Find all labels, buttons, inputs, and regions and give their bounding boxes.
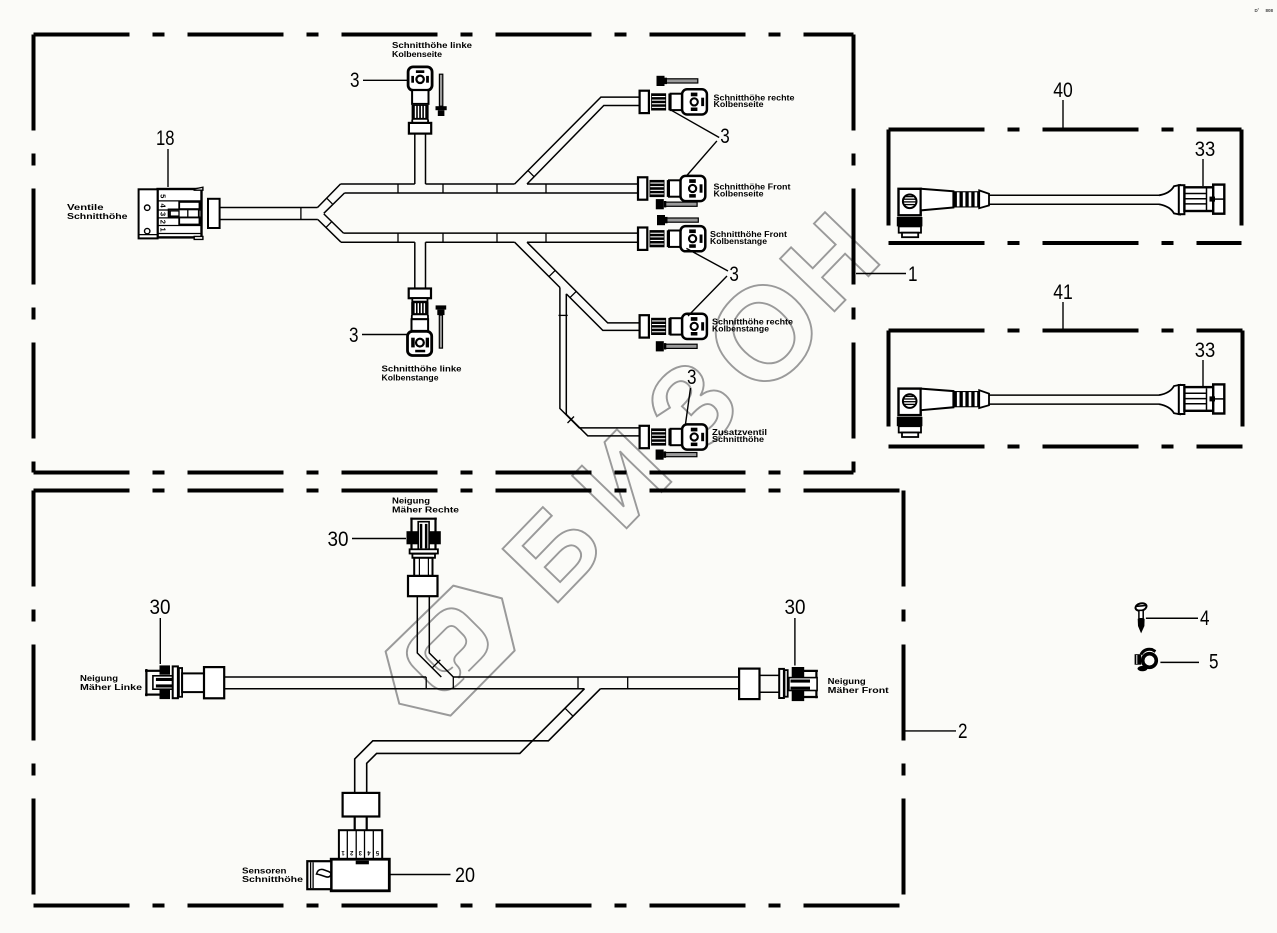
label 3 leader (upper) xyxy=(363,79,407,81)
svg-text:2: 2 xyxy=(159,220,168,224)
sensor connector 30 (Neigung Maeher Linke) xyxy=(145,665,224,699)
svg-text:3: 3 xyxy=(350,69,360,92)
svg-text:Ventile: Ventile xyxy=(67,203,104,212)
box 40 border xyxy=(889,128,1242,132)
screw (below Zusatzventil) xyxy=(664,453,697,457)
cable assembly 40: angled M12 connector xyxy=(897,185,1225,238)
label 3 leader (lower) xyxy=(362,334,407,336)
svg-text:3: 3 xyxy=(687,366,697,389)
connector 33 (41) xyxy=(1159,385,1180,415)
label 2 leader xyxy=(905,730,956,732)
ticks on lower diagonal xyxy=(549,270,555,276)
svg-text:Kolbenstange: Kolbenstange xyxy=(382,373,440,382)
svg-text:30: 30 xyxy=(785,596,806,619)
label 30 leader (right) xyxy=(794,618,796,666)
label 40 leader xyxy=(1062,100,1064,129)
wires to sensor header xyxy=(354,817,356,831)
svg-text:20: 20 xyxy=(455,864,475,887)
svg-text:Mäher Front: Mäher Front xyxy=(828,686,889,695)
svg-text:3: 3 xyxy=(349,324,359,347)
branch down to valve connector xyxy=(414,242,416,288)
svg-text:808: 808 xyxy=(1266,8,1274,13)
valve connector (Schnitthoehe Front Kolbenstange) xyxy=(638,228,647,250)
branch to sensors xyxy=(355,689,601,793)
svg-text:41: 41 xyxy=(1053,281,1073,304)
connector 18 (Ventile Schnitthoehe plug) xyxy=(139,187,203,239)
sensor branch ferrule xyxy=(343,793,380,817)
diagonal branch to rechte Kolbenstange xyxy=(515,242,560,287)
svg-text:Kolbenseite: Kolbenseite xyxy=(714,100,765,109)
svg-text:Kolbenseite: Kolbenseite xyxy=(392,50,443,59)
screw item 4 xyxy=(1135,602,1148,633)
clamp item 5 xyxy=(1135,649,1157,671)
cable from top connector to trunk xyxy=(417,596,441,677)
svg-text:Neigung: Neigung xyxy=(80,674,118,683)
svg-text:D˚: D˚ xyxy=(1255,7,1260,13)
svg-text:Kolbenstange: Kolbenstange xyxy=(712,324,770,333)
box 41 border xyxy=(889,329,1243,333)
svg-text:Sensoren: Sensoren xyxy=(242,866,287,875)
watermark logo motif xyxy=(399,601,497,699)
label 3 leader (zusatz) xyxy=(686,388,691,424)
label 18 leader xyxy=(167,149,169,187)
watermark logo hexagon xyxy=(386,586,515,716)
svg-text:Kolbenstange: Kolbenstange xyxy=(710,237,768,246)
svg-text:Neigung: Neigung xyxy=(828,677,866,686)
upper trunk ticks xyxy=(397,184,399,193)
label 20 leader xyxy=(389,874,450,876)
lower trunk ticks xyxy=(397,233,399,242)
box 2 border (bottom harness) xyxy=(34,489,904,493)
svg-text:4: 4 xyxy=(1200,607,1210,630)
upper trunk cable xyxy=(341,183,415,185)
screw (above rechte Kolbenseite) xyxy=(665,79,698,83)
Y split xyxy=(318,184,341,208)
label 4 leader xyxy=(1146,617,1198,619)
lower trunk cable xyxy=(344,232,639,234)
label 3 leaders (kolbenseite pair) xyxy=(669,109,719,137)
label 33 leader (box 40) xyxy=(1202,159,1204,186)
svg-text:Schnitthöhe: Schnitthöhe xyxy=(712,435,765,444)
valve connector (Schnitthoehe Front Kolbenseite) xyxy=(638,177,647,199)
svg-text:18: 18 xyxy=(156,127,175,150)
label 5 leader xyxy=(1160,661,1199,663)
svg-text:33: 33 xyxy=(1195,339,1216,362)
svg-text:33: 33 xyxy=(1195,138,1216,161)
screw (below rechte Kolbenstange) xyxy=(665,344,698,348)
svg-text:5: 5 xyxy=(1209,651,1219,674)
svg-text:Schnitthöhe: Schnitthöhe xyxy=(242,875,304,884)
branch up to valve connector xyxy=(414,134,416,184)
label 30 leader (top) xyxy=(352,538,406,540)
bottom trunk cable xyxy=(224,676,426,678)
diagonal branch to rechte Kolbenseite xyxy=(515,97,640,184)
svg-text:5: 5 xyxy=(159,194,168,198)
feed cable xyxy=(220,207,318,209)
sensor connector 30 (Neigung Maeher Rechte) xyxy=(407,518,441,597)
sensor block 20 (Sensoren Schnitthoehe) xyxy=(307,830,389,891)
label 30 leader (left) xyxy=(159,618,161,664)
sensor connector 30 (Neigung Maeher Front) xyxy=(739,667,818,701)
valve connector (Zusatzventil Schnitthoehe) xyxy=(640,426,649,448)
grommet at connector 18 xyxy=(208,199,220,228)
tick on bend xyxy=(432,660,441,669)
label 3 leaders (kolbenstange pair) xyxy=(686,248,728,271)
screw for upper valve connector xyxy=(439,74,442,106)
valve connector 3 lower (Schnitthoehe linke Kolbenstange) xyxy=(409,289,431,299)
cable wire xyxy=(989,394,1160,396)
branch to Zusatzventil xyxy=(560,288,640,428)
svg-text:Mäher Linke: Mäher Linke xyxy=(80,683,143,692)
feed cable tick xyxy=(300,208,302,220)
svg-text:Schnitthöhe linke: Schnitthöhe linke xyxy=(382,365,463,374)
label 41 leader xyxy=(1062,302,1064,330)
svg-text:3: 3 xyxy=(729,263,739,286)
screw (above Front Kolbenstange) xyxy=(666,218,699,222)
svg-text:Kolbenseite: Kolbenseite xyxy=(714,190,765,199)
valve connector (Schnitthoehe rechte Kolbenseite) xyxy=(640,91,649,113)
ticks on zusatz branch xyxy=(559,314,568,316)
trunk ticks xyxy=(425,677,427,689)
svg-text:30: 30 xyxy=(328,528,349,551)
svg-text:1: 1 xyxy=(159,228,168,232)
svg-text:Mäher Rechte: Mäher Rechte xyxy=(392,505,460,514)
valve connector (Schnitthoehe rechte Kolbenstange) xyxy=(640,315,649,337)
box 1 border (top harness) xyxy=(34,33,854,37)
label 1 leader xyxy=(856,273,906,275)
svg-text:1: 1 xyxy=(908,263,918,286)
cable wire xyxy=(989,194,1160,196)
label 33 leader (box 41) xyxy=(1202,360,1204,386)
svg-text:30: 30 xyxy=(150,596,171,619)
valve connector 3 upper (Schnitthoehe linke Kolbenseite) xyxy=(408,67,432,90)
screw for lower valve connector xyxy=(436,305,447,309)
cable assembly 41: angled M12 connector xyxy=(897,384,1225,437)
tick on sensor branch diagonal xyxy=(565,708,573,716)
svg-text:Schnitthöhe: Schnitthöhe xyxy=(67,212,128,221)
connector 33 (40) xyxy=(1159,185,1180,215)
svg-text:3: 3 xyxy=(159,212,168,216)
screw (below Front Kolbenseite) xyxy=(665,202,698,206)
tick on upper diagonal xyxy=(528,171,534,177)
Y split ticks xyxy=(327,198,333,204)
svg-text:Neigung: Neigung xyxy=(392,497,430,506)
svg-text:2: 2 xyxy=(958,720,968,743)
svg-text:3: 3 xyxy=(720,125,730,148)
svg-text:Schnitthöhe linke: Schnitthöhe linke xyxy=(392,41,473,50)
svg-text:40: 40 xyxy=(1053,79,1073,102)
